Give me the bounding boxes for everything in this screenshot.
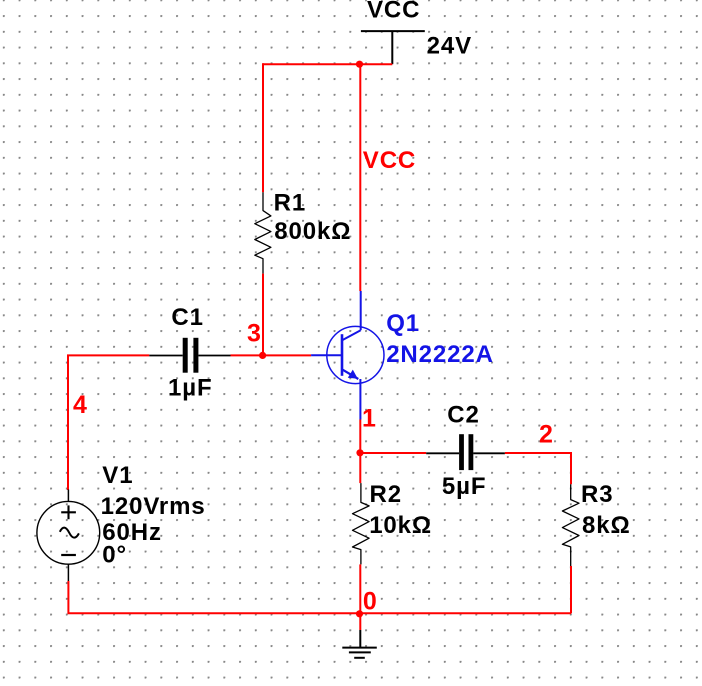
junction dot node 1 [356, 449, 363, 456]
capacitor C1 [149, 338, 230, 373]
svg-text:R2: R2 [370, 481, 402, 508]
svg-text:Q1: Q1 [386, 310, 420, 337]
AC source V1 [37, 490, 100, 582]
svg-text:V1: V1 [102, 462, 133, 489]
svg-text:R3: R3 [581, 481, 613, 508]
wire top to R1 [262, 63, 264, 192]
wire R2 to node 0 [359, 564, 361, 613]
svg-text:5µF: 5µF [442, 473, 487, 500]
resistor R1 [255, 192, 271, 273]
svg-text:VCC: VCC [363, 147, 416, 174]
svg-text:R1: R1 [274, 190, 306, 217]
wire emitter to node 1 [359, 420, 361, 454]
svg-text:2N2222A: 2N2222A [386, 341, 494, 368]
wire to ground [359, 613, 361, 630]
svg-text:4: 4 [73, 391, 88, 419]
capacitor C2 [426, 434, 505, 470]
svg-text:VCC: VCC [367, 0, 420, 24]
svg-text:C1: C1 [171, 304, 203, 331]
wire C1 left corner [68, 355, 149, 490]
wire C2 to R3 corner [505, 453, 571, 484]
transistor Q1 [311, 291, 384, 420]
svg-text:C2: C2 [447, 402, 479, 429]
svg-text:8kΩ: 8kΩ [582, 512, 631, 539]
svg-text:1: 1 [362, 405, 377, 433]
junction dot node 3 [259, 352, 266, 359]
wire bottom right [360, 612, 571, 614]
wire node 1 to C2 [360, 452, 426, 454]
svg-text:24V: 24V [427, 33, 472, 60]
wire C1 to node 3 [231, 354, 312, 356]
wire V1 to bottom corner [68, 581, 360, 613]
svg-text:10kΩ: 10kΩ [369, 512, 432, 539]
resistor R3 [562, 484, 579, 566]
ground [342, 630, 377, 658]
wire top horizontal [263, 63, 393, 65]
wire VCC to collector [359, 64, 361, 291]
junction dot top [356, 61, 363, 68]
junction dot node 0 [356, 610, 363, 617]
svg-text:3: 3 [247, 320, 262, 348]
resistor R2 [353, 483, 370, 564]
wire R3 to bottom [570, 566, 572, 613]
svg-text:2: 2 [539, 421, 554, 449]
svg-text:120Vrms: 120Vrms [101, 493, 206, 520]
svg-text:1µF: 1µF [168, 375, 213, 402]
wire node1 to R2 [359, 453, 361, 483]
wire R1 to node 3 [262, 274, 264, 356]
svg-text:0°: 0° [102, 542, 127, 569]
svg-text:800kΩ: 800kΩ [274, 218, 351, 245]
svg-text:0: 0 [363, 588, 378, 616]
power symbol VCC [361, 31, 425, 64]
